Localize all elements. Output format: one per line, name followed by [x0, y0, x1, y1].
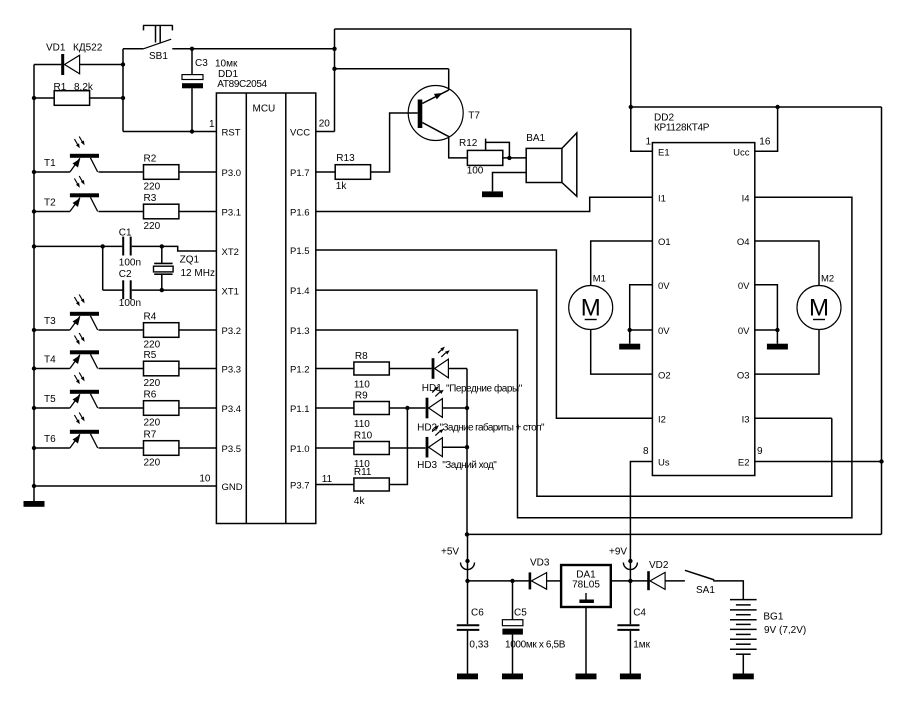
MCU pin labels: [222, 127, 311, 493]
wire: [591, 330, 653, 375]
wire: [390, 447, 426, 449]
regulator DA1: [561, 565, 611, 607]
pin 11: [322, 474, 333, 485]
wire: [446, 135, 467, 158]
svg-text:P3.2: P3.2: [222, 326, 242, 337]
wire: [121, 49, 125, 132]
resistor R6: [144, 390, 179, 429]
wire: [132, 288, 217, 292]
transistor T7: [408, 86, 480, 141]
svg-text:P1.0: P1.0: [290, 444, 310, 455]
svg-text:P3.3: P3.3: [222, 365, 242, 376]
resistor R5: [144, 350, 179, 389]
svg-text:VD2: VD2: [649, 560, 669, 571]
svg-text:8: 8: [643, 446, 649, 457]
svg-text:T4: T4: [44, 355, 56, 366]
wire: [755, 417, 832, 419]
ground: [502, 674, 523, 680]
wire: [99, 171, 144, 173]
svg-text:КД522: КД522: [73, 43, 103, 54]
wire: [316, 290, 832, 496]
svg-text:C3: C3: [195, 58, 208, 69]
pin 9: [757, 446, 763, 457]
ground: [482, 191, 503, 197]
svg-text:RST: RST: [222, 128, 241, 139]
svg-text:10мк: 10мк: [215, 59, 238, 70]
svg-text:AT89C2054: AT89C2054: [217, 79, 267, 90]
wire: [32, 65, 36, 502]
svg-text:R8: R8: [355, 351, 368, 362]
wire: [486, 139, 512, 160]
wire: [316, 250, 653, 418]
node XT2 wire: [162, 246, 217, 251]
svg-text:M2: M2: [821, 274, 834, 285]
crystal ZQ1: [154, 246, 215, 290]
svg-text:78L05: 78L05: [572, 580, 600, 591]
capacitor C4: [617, 608, 650, 651]
svg-text:110: 110: [354, 380, 370, 391]
wire: [755, 107, 778, 151]
svg-text:"Задний ход": "Задний ход": [442, 460, 497, 471]
svg-text:R5: R5: [144, 350, 157, 361]
svg-text:1: 1: [645, 136, 651, 147]
wire: [34, 64, 123, 66]
pin 20: [319, 119, 331, 130]
wire: [629, 105, 653, 151]
svg-text:P3.4: P3.4: [222, 404, 242, 415]
wire: [755, 330, 778, 344]
svg-text:ZQ1: ZQ1: [180, 255, 200, 266]
wire: [631, 105, 882, 109]
svg-text:0V: 0V: [658, 281, 670, 292]
svg-text:100n: 100n: [119, 258, 141, 269]
svg-text:110: 110: [354, 419, 370, 430]
wire: [467, 533, 882, 535]
motor M1: [569, 274, 613, 330]
pin 10: [199, 474, 211, 485]
wire: [34, 244, 123, 248]
connector +9V: [623, 559, 637, 570]
svg-text:C6: C6: [471, 608, 484, 619]
wire: [467, 581, 469, 674]
LED HD2: [426, 386, 444, 418]
svg-text:C5: C5: [514, 608, 527, 619]
wire: [132, 244, 164, 248]
resistor R8: [354, 351, 389, 391]
svg-text:I4: I4: [742, 194, 750, 205]
wire: [755, 241, 819, 286]
wire: [179, 368, 217, 370]
wire: [316, 171, 335, 173]
svg-text:P3.1: P3.1: [222, 208, 242, 219]
wire: [630, 462, 652, 562]
svg-text:1k: 1k: [336, 181, 348, 192]
LED HD3: [426, 425, 444, 457]
svg-text:T6: T6: [44, 434, 56, 445]
wire: [755, 330, 819, 375]
wire: [390, 408, 408, 485]
svg-text:BA1: BA1: [526, 133, 545, 144]
capacitor C3: [182, 58, 238, 88]
wire: [465, 534, 469, 583]
transistor T1: [34, 137, 99, 173]
svg-text:O2: O2: [658, 370, 671, 381]
svg-text:SB1: SB1: [149, 51, 168, 62]
label HD2: [417, 422, 545, 434]
resistor R13: [335, 153, 370, 192]
svg-text:0,33: 0,33: [469, 639, 489, 650]
svg-text:P1.6: P1.6: [290, 207, 310, 218]
svg-text:T7: T7: [468, 111, 480, 122]
wire: [442, 445, 469, 449]
wire: [34, 97, 123, 99]
svg-text:R10: R10: [354, 431, 373, 442]
wire: [742, 654, 744, 673]
wire: [493, 173, 527, 192]
svg-text:220: 220: [144, 418, 161, 429]
svg-text:C1: C1: [119, 227, 132, 238]
svg-text:T2: T2: [44, 198, 56, 209]
wire: [468, 579, 530, 583]
wire: [755, 285, 780, 332]
resistor R7: [144, 430, 179, 469]
ground: [619, 344, 640, 350]
ground: [767, 344, 788, 350]
wire: [190, 88, 194, 133]
resistor R12: [459, 138, 503, 177]
svg-text:+9V: +9V: [609, 547, 627, 558]
ground: [576, 674, 597, 680]
svg-text:220: 220: [144, 458, 161, 469]
svg-text:220: 220: [144, 378, 161, 389]
capacitor C2: [119, 269, 141, 309]
wire: [102, 246, 104, 290]
wire: [442, 406, 469, 410]
op-amp U1 MCU DD1: [216, 93, 315, 524]
svg-text:O3: O3: [737, 370, 750, 381]
wire: [611, 580, 648, 582]
transistor T5: [34, 373, 99, 409]
svg-text:9: 9: [757, 446, 763, 457]
svg-text:0V: 0V: [658, 326, 670, 337]
svg-text:T3: T3: [44, 316, 56, 327]
svg-text:E1: E1: [658, 147, 670, 158]
speaker BA1: [526, 133, 577, 197]
wire: [547, 580, 562, 582]
svg-text:R3: R3: [144, 193, 157, 204]
svg-text:R2: R2: [144, 154, 157, 165]
wire: [316, 197, 653, 211]
pin 16: [759, 136, 771, 147]
svg-text:12 MHz: 12 MHz: [181, 268, 215, 279]
svg-text:SA1: SA1: [696, 585, 715, 596]
wire: [103, 289, 123, 291]
wire: [190, 47, 194, 75]
label HD1: [422, 383, 523, 395]
svg-text:R6: R6: [144, 390, 157, 401]
wire: [179, 329, 217, 331]
svg-text:O1: O1: [658, 237, 671, 248]
wire: [123, 131, 216, 133]
wire: [390, 406, 426, 410]
svg-text:1мк: 1мк: [633, 639, 650, 650]
svg-text:C4: C4: [633, 608, 646, 619]
svg-text:MCU: MCU: [253, 104, 276, 115]
svg-text:R13: R13: [336, 153, 355, 164]
resistor R3: [144, 193, 179, 232]
wire: [629, 581, 631, 674]
svg-text:11: 11: [322, 474, 333, 485]
svg-text:O4: O4: [737, 237, 750, 248]
svg-text:Ucc: Ucc: [733, 147, 750, 158]
transistor T4: [34, 333, 99, 369]
svg-text:100n: 100n: [119, 298, 141, 309]
svg-text:10: 10: [199, 474, 211, 485]
ground: [620, 674, 641, 680]
svg-text:0V: 0V: [738, 281, 750, 292]
wire: [99, 407, 144, 409]
wire: [316, 407, 354, 409]
pin 1: [645, 136, 651, 147]
battery BG1: [730, 600, 806, 655]
svg-text:P1.5: P1.5: [290, 246, 310, 257]
svg-text:P3.0: P3.0: [222, 168, 242, 179]
resistor R11: [354, 467, 389, 507]
wire: [316, 484, 354, 486]
wire: [316, 368, 354, 370]
svg-text:M: M: [809, 295, 829, 322]
svg-text:"Передние фары": "Передние фары": [446, 383, 523, 395]
svg-text:E2: E2: [738, 458, 750, 469]
svg-text:I3: I3: [742, 414, 750, 425]
resistor R9: [354, 391, 389, 431]
ground: [733, 674, 754, 680]
wire: [585, 607, 587, 674]
svg-text:T5: T5: [44, 394, 56, 405]
pin 1: [209, 119, 215, 130]
svg-text:R11: R11: [354, 467, 372, 478]
wire: [34, 485, 216, 487]
capacitor C6: [457, 608, 490, 651]
svg-text:VCC: VCC: [290, 127, 310, 138]
wire: [99, 211, 144, 213]
svg-text:1: 1: [209, 119, 215, 130]
wire: [465, 369, 469, 537]
svg-text:P1.7: P1.7: [290, 168, 310, 179]
svg-text:VD1: VD1: [46, 43, 66, 54]
wire: [665, 580, 685, 582]
svg-text:P1.3: P1.3: [290, 326, 310, 337]
svg-text:1000мк x 6,5В: 1000мк x 6,5В: [505, 639, 566, 650]
LED HD1: [432, 347, 450, 379]
DD2 pin labels: [658, 147, 750, 468]
svg-text:Us: Us: [658, 458, 670, 469]
diode VD2: [647, 560, 669, 590]
switch SA1: [685, 570, 715, 596]
svg-text:HD2: HD2: [417, 423, 437, 434]
wire: [630, 330, 653, 344]
svg-text:P1.2: P1.2: [290, 364, 310, 375]
wire: [448, 368, 467, 370]
svg-text:R4: R4: [144, 312, 157, 323]
svg-text:P1.1: P1.1: [290, 404, 310, 415]
wire: [512, 581, 514, 674]
wire: [591, 241, 653, 286]
wire: [879, 107, 883, 534]
wire: [628, 285, 653, 332]
resistor R2: [144, 154, 179, 193]
wire: [316, 131, 335, 133]
wire: [179, 447, 217, 449]
ground: [457, 674, 478, 680]
svg-text:GND: GND: [222, 482, 243, 493]
svg-text:9V (7,2V): 9V (7,2V): [764, 625, 806, 636]
svg-text:P3.7: P3.7: [290, 480, 310, 491]
svg-text:HD3: HD3: [417, 460, 437, 471]
svg-text:P1.4: P1.4: [290, 286, 310, 297]
svg-text:VD3: VD3: [530, 558, 550, 569]
wire: [755, 461, 882, 463]
wire: [332, 29, 336, 132]
transistor T3: [34, 295, 99, 331]
label +9V: [609, 547, 627, 558]
resistor R4: [144, 312, 179, 351]
ground: [24, 501, 45, 507]
svg-text:"Задние габариты + стоп": "Задние габариты + стоп": [440, 422, 545, 434]
svg-text:0V: 0V: [738, 326, 750, 337]
wire: [628, 561, 632, 583]
wire: [371, 113, 418, 172]
svg-text:220: 220: [144, 340, 161, 351]
svg-text:I2: I2: [658, 414, 666, 425]
diode VD3: [529, 558, 550, 590]
svg-text:BG1: BG1: [763, 612, 783, 623]
wire: [390, 368, 432, 370]
svg-text:16: 16: [759, 136, 771, 147]
resistor R1: [54, 82, 94, 105]
wire: [335, 29, 631, 107]
svg-text:XT1: XT1: [222, 286, 239, 297]
op-amp U2 DD2: [652, 143, 754, 476]
svg-text:20: 20: [319, 119, 331, 130]
pin 8: [643, 446, 649, 457]
svg-text:+5V: +5V: [441, 547, 459, 558]
svg-text:100: 100: [467, 166, 484, 177]
svg-text:C2: C2: [119, 269, 132, 280]
wire: [179, 211, 217, 213]
svg-text:R1: R1: [54, 82, 67, 93]
svg-text:M1: M1: [593, 274, 606, 285]
connector +5V: [461, 559, 475, 570]
wire: [335, 69, 449, 90]
wire: [713, 581, 743, 600]
svg-text:R12: R12: [459, 138, 478, 149]
svg-text:XT2: XT2: [222, 247, 239, 258]
transistor T2: [34, 176, 99, 212]
wire: [503, 157, 526, 159]
svg-text:R7: R7: [144, 430, 157, 441]
label HD3: [417, 460, 497, 471]
capacitor C5: [502, 608, 565, 651]
svg-text:I1: I1: [658, 194, 666, 205]
svg-text:T1: T1: [44, 158, 56, 169]
wire: [99, 368, 144, 370]
transistor T6: [34, 413, 99, 449]
svg-text:P3.5: P3.5: [222, 444, 242, 455]
svg-text:M: M: [581, 295, 601, 322]
capacitor C1: [119, 227, 141, 268]
svg-text:4k: 4k: [354, 496, 366, 507]
wire: [316, 197, 852, 517]
motor M2: [797, 274, 841, 330]
IC DD1 label: [217, 69, 267, 90]
wire: [99, 329, 144, 331]
diode VD1: [46, 43, 103, 76]
svg-text:8,2k: 8,2k: [74, 82, 94, 93]
wire: [179, 171, 217, 173]
label +5V: [441, 547, 459, 558]
wire: [179, 407, 217, 409]
svg-text:220: 220: [144, 182, 161, 193]
wire: [316, 447, 354, 449]
IC DD2 label: [654, 113, 710, 134]
svg-text:R9: R9: [355, 391, 368, 402]
svg-text:220: 220: [144, 221, 161, 232]
wire: [99, 447, 144, 449]
svg-text:КР1128КТ4Р: КР1128КТ4Р: [654, 123, 710, 134]
resistor R10: [354, 431, 389, 471]
switch SB1: [123, 25, 335, 62]
